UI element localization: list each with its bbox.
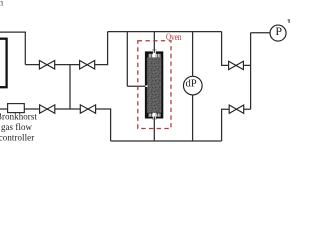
valve V3 <box>40 105 55 114</box>
svg-text:Oven: Oven <box>166 32 182 43</box>
mass flow controller box <box>8 104 25 113</box>
wire: reactor feed tube <box>153 32 155 53</box>
wire: bottom bypass line <box>111 140 222 142</box>
svg-text:n: n <box>0 0 4 9</box>
wire: cross connector between rows <box>69 65 71 109</box>
wire: right jog down from main line <box>221 32 223 66</box>
wire: left feed line top <box>0 31 26 33</box>
reactor top fitting <box>153 50 156 57</box>
valve V5 <box>229 61 244 69</box>
wire: dP top branch <box>192 32 194 76</box>
wire: line to pressure gauge P <box>251 32 270 34</box>
wire: left feed drop <box>24 32 26 65</box>
oven dashed boundary <box>138 41 171 129</box>
valve V6 <box>229 105 244 113</box>
wire: main top line <box>108 31 222 33</box>
dP gauge circle <box>183 76 202 95</box>
wire: thermocouple drop <box>126 32 128 87</box>
reactor top cap ticks <box>149 54 161 58</box>
reactor bottom fitting <box>153 113 156 119</box>
svg-text:Bronkhorst: Bronkhorst <box>0 112 37 122</box>
wire: top valve row <box>25 64 108 66</box>
valve V2 <box>80 61 95 70</box>
svg-text:controller: controller <box>0 133 34 143</box>
thermocouple entry notch <box>145 85 147 87</box>
wire: thermocouple probe into reactor <box>127 85 145 87</box>
wire: V6 jog down to bypass <box>221 109 223 141</box>
wire: top row riser to main line <box>107 32 109 65</box>
reactor packed bed <box>147 57 161 112</box>
wire: bottom valve row <box>0 108 111 110</box>
wire: bottom row drop <box>110 109 112 141</box>
wire: right riser to P <box>250 33 252 110</box>
text fragment (cut off, right edge) <box>288 19 290 20</box>
svg-text:dP: dP <box>186 77 197 89</box>
valve V4 <box>80 105 95 114</box>
P gauge circle <box>270 25 286 41</box>
valve V1 <box>39 61 54 70</box>
wire: dP bottom branch <box>192 95 194 141</box>
svg-text:gas flow: gas flow <box>1 122 33 132</box>
wire: valve V5 row <box>222 64 251 66</box>
wire: valve V6 row <box>222 108 251 110</box>
reactor outline <box>145 51 163 118</box>
svg-text:P: P <box>275 24 282 38</box>
wire: reactor outlet tube <box>153 117 155 142</box>
gas supply device (cut off at left edge) <box>0 39 7 87</box>
reactor bottom cap ticks <box>149 113 161 116</box>
